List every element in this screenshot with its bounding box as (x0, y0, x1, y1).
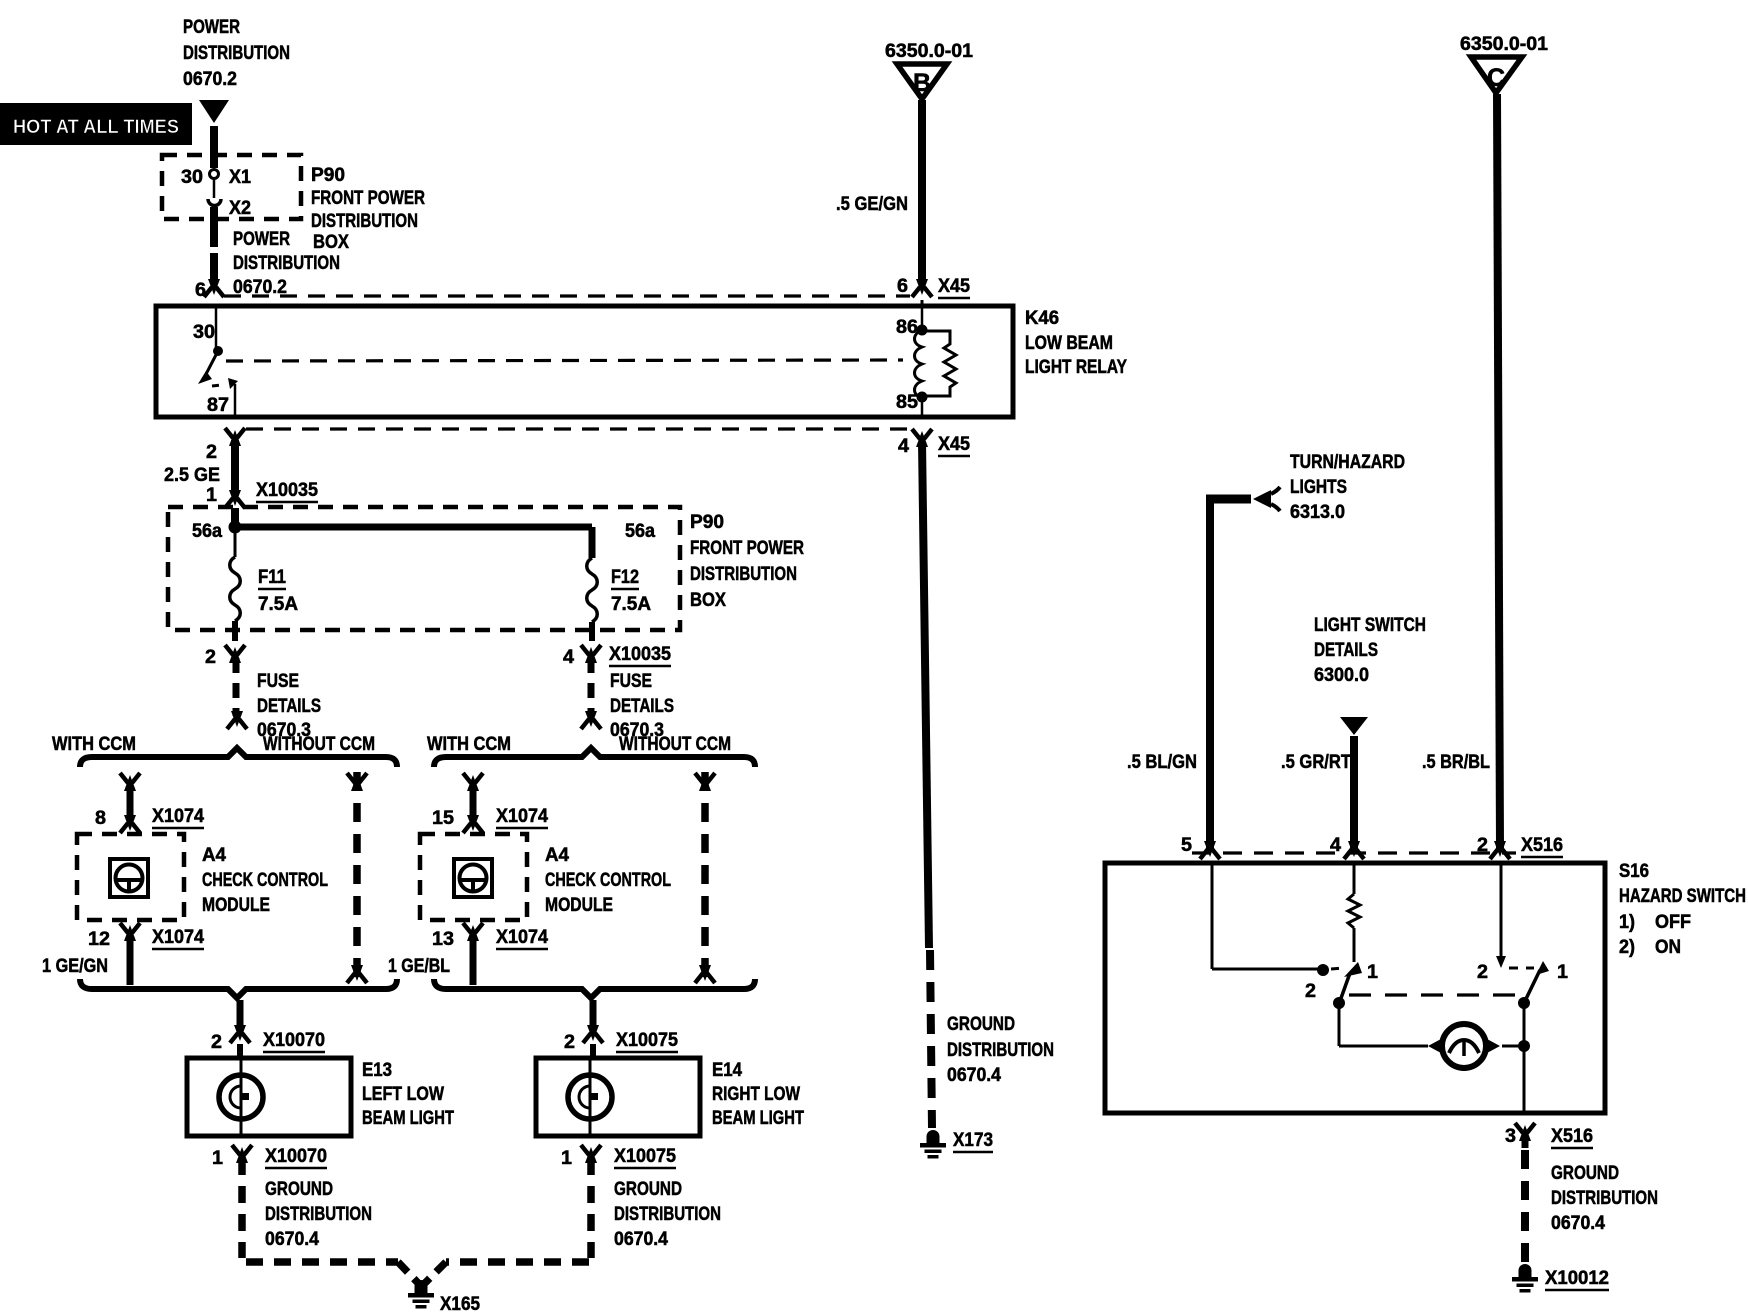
turn/hazard lights reference (1206, 452, 1405, 523)
svg-text:BOX: BOX (690, 590, 726, 611)
svg-text:6300.0: 6300.0 (1314, 665, 1369, 686)
relay pin 30 (193, 308, 216, 348)
svg-text:DISTRIBUTION: DISTRIBUTION (690, 564, 797, 585)
svg-text:0670.4: 0670.4 (947, 1065, 1001, 1086)
wire pin 2 to X10035 (231, 440, 239, 492)
svg-text:0670.4: 0670.4 (1551, 1213, 1605, 1234)
svg-text:DISTRIBUTION: DISTRIBUTION (265, 1204, 372, 1225)
svg-text:FUSE: FUSE (257, 671, 299, 692)
ground distribution label left (265, 1179, 372, 1250)
svg-text:1: 1 (1557, 962, 1568, 983)
svg-text:1): 1) (1619, 912, 1635, 933)
svg-text:1 GE/GN: 1 GE/GN (42, 956, 108, 977)
svg-text:56a: 56a (192, 521, 222, 542)
wire bracket to X10075 (590, 1000, 597, 1028)
box P90 front power distribution box (fuse box) (168, 507, 804, 630)
svg-text:4: 4 (1330, 835, 1341, 856)
connector X45 pin 6 (897, 276, 970, 298)
ground distribution label middle (947, 1014, 1054, 1086)
with/without CCM labels right (427, 734, 731, 755)
wire 1 GE/GN label (42, 956, 108, 977)
HOT AT ALL TIMES banner (0, 103, 192, 145)
svg-text:LIGHTS: LIGHTS (1290, 477, 1347, 498)
svg-text:2: 2 (564, 1032, 575, 1053)
ground distribution label right (614, 1179, 721, 1250)
svg-text:DISTRIBUTION: DISTRIBUTION (311, 211, 418, 232)
wire .5 GE/GN label (836, 194, 908, 215)
svg-text:WITHOUT CCM: WITHOUT CCM (263, 734, 375, 755)
ground X10012 (1512, 1264, 1609, 1293)
svg-text:LOW BEAM: LOW BEAM (1025, 333, 1113, 354)
indicator lamp in hazard switch (1428, 1024, 1500, 1068)
svg-text:0670.4: 0670.4 (614, 1229, 668, 1250)
branch bracket bottom left (80, 979, 397, 998)
dashed line inside relay (226, 360, 903, 361)
relay pin 87 (207, 384, 235, 416)
wire to X173 (dashed) (930, 950, 932, 1128)
svg-text:S16: S16 (1619, 861, 1649, 882)
svg-text:.5 BL/GN: .5 BL/GN (1127, 752, 1197, 773)
power feed from power distribution 0670.2 (183, 17, 290, 123)
connector X2 (208, 198, 251, 219)
connector X10070 pin 1 (212, 1145, 327, 1169)
wire .5 BL/GN label (1127, 752, 1197, 773)
connector X10035 pin 1 (206, 480, 318, 522)
check control module A4 (left) (77, 834, 328, 920)
svg-text:DISTRIBUTION: DISTRIBUTION (233, 253, 340, 274)
dashed connector line at relay bottom (246, 427, 910, 430)
connector X10035 pin 4 (563, 644, 671, 668)
dashed connector line X516 (1192, 851, 1516, 854)
svg-text:X1: X1 (229, 167, 251, 188)
svg-text:15: 15 (432, 808, 454, 829)
wire light switch to X516 pin 4 (1350, 736, 1358, 848)
svg-text:4: 4 (563, 647, 574, 668)
ground wire E13 to X165 (242, 1158, 419, 1284)
connector X1 pin 30 (181, 167, 251, 188)
connector X10075 pin 1 (561, 1145, 676, 1169)
mechanical link between contacts (1349, 993, 1516, 996)
svg-text:DISTRIBUTION: DISTRIBUTION (947, 1040, 1054, 1061)
relay K46 box (156, 306, 1127, 417)
svg-text:X1074: X1074 (152, 806, 204, 827)
svg-text:X45: X45 (938, 276, 970, 297)
ground X173 (920, 1130, 993, 1159)
hazard switch S16 box (1105, 861, 1746, 1113)
connector pin 2 below relay (X45 side left) (206, 428, 245, 463)
hazard switch contact right (positions 1/2) (1477, 961, 1568, 1009)
light switch details reference (1314, 615, 1426, 735)
fuse F12 7.5A (587, 558, 652, 641)
branch wire without-CCM right (695, 772, 715, 985)
svg-text:B: B (913, 69, 931, 97)
resistor in hazard switch (1348, 865, 1360, 962)
svg-text:DETAILS: DETAILS (1314, 640, 1378, 661)
dashed connector line at relay top (224, 294, 910, 297)
connector X10035 pin 2 (205, 645, 245, 668)
box P90 front power distribution box (upper) (162, 155, 425, 253)
ground wire E14 to X165 (424, 1158, 591, 1284)
svg-text:LIGHT SWITCH: LIGHT SWITCH (1314, 615, 1426, 636)
wire right contact through lamp node to pin 3 (1502, 1006, 1530, 1112)
power distribution 0670.2 label (233, 229, 340, 298)
connector X516 pin 5 (1181, 835, 1220, 859)
triangle connector B 6350.0-01 (885, 41, 973, 99)
svg-text:WITH CCM: WITH CCM (52, 734, 136, 755)
ground X165 (408, 1280, 480, 1312)
svg-text:6313.0: 6313.0 (1290, 502, 1345, 523)
svg-text:FRONT POWER: FRONT POWER (690, 538, 804, 559)
svg-text:TURN/HAZARD: TURN/HAZARD (1290, 452, 1405, 473)
svg-text:MODULE: MODULE (202, 895, 270, 916)
wire from power feed to X1 (210, 126, 218, 168)
svg-text:2: 2 (206, 442, 217, 463)
wire bracket to X10070 (237, 1000, 244, 1028)
svg-text:X173: X173 (953, 1130, 993, 1151)
svg-text:56a: 56a (625, 521, 655, 542)
svg-text:BEAM LIGHT: BEAM LIGHT (362, 1108, 454, 1129)
svg-text:X45: X45 (938, 434, 970, 455)
svg-text:6: 6 (897, 276, 908, 297)
svg-text:A4: A4 (202, 845, 226, 866)
svg-text:6: 6 (195, 280, 206, 301)
svg-text:87: 87 (207, 395, 229, 416)
connector X10070 pin 2 (211, 1025, 325, 1057)
svg-text:2: 2 (211, 1032, 222, 1053)
svg-text:X10070: X10070 (265, 1146, 327, 1167)
svg-text:.5 GE/GN: .5 GE/GN (836, 194, 908, 215)
wire B down to X45 pin 6 (918, 100, 926, 282)
svg-text:GROUND: GROUND (947, 1014, 1015, 1035)
svg-text:4: 4 (898, 436, 909, 457)
svg-text:F12: F12 (611, 567, 639, 588)
svg-text:2: 2 (1477, 962, 1488, 983)
svg-text:POWER: POWER (233, 229, 290, 250)
wire .5 BR/BL label (1422, 752, 1490, 773)
svg-text:MODULE: MODULE (545, 895, 613, 916)
svg-text:X1074: X1074 (496, 927, 548, 948)
svg-text:DETAILS: DETAILS (257, 696, 321, 717)
svg-text:12: 12 (88, 929, 110, 950)
svg-text:DISTRIBUTION: DISTRIBUTION (614, 1204, 721, 1225)
svg-text:FUSE: FUSE (610, 671, 652, 692)
connector X516 pin 2 (1477, 835, 1563, 859)
svg-text:HAZARD SWITCH: HAZARD SWITCH (1619, 886, 1746, 907)
with/without CCM labels left (52, 734, 375, 755)
connector X1074 pin 15 (432, 806, 548, 833)
branch bracket top right (434, 748, 755, 767)
svg-text:6350.0-01: 6350.0-01 (1460, 34, 1548, 55)
svg-text:X1074: X1074 (152, 927, 204, 948)
svg-text:X165: X165 (440, 1294, 480, 1312)
svg-text:2.5 GE: 2.5 GE (164, 465, 220, 486)
svg-text:2: 2 (1305, 981, 1316, 1002)
fuse details reference right (581, 658, 674, 741)
svg-text:DETAILS: DETAILS (610, 696, 674, 717)
svg-text:OFF: OFF (1655, 912, 1691, 933)
svg-text:.5 BR/BL: .5 BR/BL (1422, 752, 1490, 773)
svg-text:2): 2) (1619, 937, 1635, 958)
connector pin 6 into relay (195, 279, 224, 301)
svg-text:8: 8 (95, 808, 106, 829)
hazard switch contact left (positions 1/2) (1305, 962, 1378, 1009)
svg-text:WITHOUT CCM: WITHOUT CCM (619, 734, 731, 755)
wire X516-3 to X10012 (dashed) (1521, 1150, 1529, 1262)
svg-text:C: C (1487, 64, 1505, 92)
svg-text:FRONT POWER: FRONT POWER (311, 188, 425, 209)
wire C down to X516 pin 2 (1497, 94, 1500, 848)
svg-text:DISTRIBUTION: DISTRIBUTION (1551, 1188, 1658, 1209)
svg-text:ON: ON (1655, 937, 1681, 958)
svg-text:30: 30 (193, 322, 215, 343)
branch wire without-CCM left (347, 772, 367, 985)
svg-text:BOX: BOX (313, 232, 349, 253)
wire turn/hazard to X516 pin 5 (1206, 499, 1214, 848)
svg-text:LEFT LOW: LEFT LOW (362, 1084, 444, 1105)
svg-text:5: 5 (1181, 835, 1192, 856)
svg-text:X10012: X10012 (1545, 1268, 1609, 1289)
svg-text:1 GE/BL: 1 GE/BL (388, 956, 450, 977)
wire .5 GR/RT label (1281, 752, 1351, 773)
branch bracket top left (80, 748, 397, 767)
svg-text:HOT AT ALL TIMES: HOT AT ALL TIMES (13, 117, 179, 138)
wire pin 2 inside switch (1496, 865, 1506, 968)
svg-text:30: 30 (181, 167, 203, 188)
svg-text:1: 1 (212, 1148, 223, 1169)
wire 2.5 GE label (164, 465, 220, 486)
svg-text:13: 13 (432, 929, 454, 950)
ground distribution label far right (1551, 1163, 1658, 1234)
wire X45-4 down (solid) (922, 442, 929, 948)
svg-text:CHECK CONTROL: CHECK CONTROL (202, 870, 328, 891)
svg-text:3: 3 (1505, 1126, 1516, 1147)
triangle connector C 6350.0-01 (1460, 34, 1548, 93)
svg-text:POWER: POWER (183, 17, 240, 38)
connector X516 pin 3 (1505, 1123, 1593, 1148)
branch bracket bottom right (434, 979, 755, 998)
svg-text:X10075: X10075 (614, 1146, 676, 1167)
branch wire with-CCM top connector (120, 773, 140, 818)
wire pin 5 inside switch (1212, 865, 1329, 976)
relay switch contact 30-87 (198, 346, 238, 389)
connector X1074 pin 12 (88, 923, 204, 985)
branch wire with-CCM right top connector (463, 773, 483, 818)
bulb E13 left low beam light (187, 1058, 454, 1136)
connector X10075 pin 2 (564, 1025, 678, 1057)
svg-text:X10035: X10035 (256, 480, 318, 501)
wire X1 to X2 (213, 179, 216, 198)
svg-text:X10070: X10070 (263, 1030, 325, 1051)
svg-text:P90: P90 (690, 512, 724, 533)
svg-text:2: 2 (1477, 835, 1488, 856)
wire X2 down to relay pin 6 (210, 207, 218, 284)
svg-text:2: 2 (205, 647, 216, 668)
wire left contact to lamp (1339, 1006, 1428, 1046)
svg-text:F11: F11 (258, 567, 286, 588)
svg-text:0670.4: 0670.4 (265, 1229, 319, 1250)
relay coil pins 86-85 (896, 308, 956, 416)
svg-text:GROUND: GROUND (1551, 1163, 1619, 1184)
svg-text:X10075: X10075 (616, 1030, 678, 1051)
svg-text:CHECK CONTROL: CHECK CONTROL (545, 870, 671, 891)
svg-text:7.5A: 7.5A (258, 594, 298, 615)
svg-text:E14: E14 (712, 1060, 742, 1081)
svg-text:X1074: X1074 (496, 806, 548, 827)
svg-text:X2: X2 (229, 198, 251, 219)
svg-text:X10035: X10035 (609, 644, 671, 665)
svg-text:0670.2: 0670.2 (183, 69, 237, 90)
svg-text:1: 1 (561, 1148, 572, 1169)
svg-text:GROUND: GROUND (265, 1179, 333, 1200)
svg-text:X516: X516 (1521, 835, 1563, 856)
connector X1074 pin 13 (432, 923, 548, 985)
check control module A4 (right) (420, 834, 671, 920)
svg-text:BEAM LIGHT: BEAM LIGHT (712, 1108, 804, 1129)
svg-text:6350.0-01: 6350.0-01 (885, 41, 973, 62)
fuse details reference left (227, 658, 321, 741)
connector X45 pin 4 (898, 429, 970, 457)
svg-text:GROUND: GROUND (614, 1179, 682, 1200)
svg-text:RIGHT LOW: RIGHT LOW (712, 1084, 800, 1105)
svg-text:A4: A4 (545, 845, 569, 866)
svg-text:DISTRIBUTION: DISTRIBUTION (183, 43, 290, 64)
svg-text:E13: E13 (362, 1060, 392, 1081)
svg-text:WITH CCM: WITH CCM (427, 734, 511, 755)
svg-text:X516: X516 (1551, 1126, 1593, 1147)
svg-text:1: 1 (1367, 962, 1378, 983)
node 56a (192, 521, 655, 559)
svg-text:.5 GR/RT: .5 GR/RT (1281, 752, 1351, 773)
svg-text:K46: K46 (1025, 308, 1059, 329)
fuse F11 7.5A (230, 530, 299, 641)
svg-text:LIGHT RELAY: LIGHT RELAY (1025, 357, 1127, 378)
connector X516 pin 4 (1330, 835, 1364, 859)
bulb E14 right low beam light (536, 1058, 804, 1136)
connector X1074 pin 8 (95, 806, 204, 833)
svg-text:P90: P90 (311, 165, 345, 186)
svg-text:1: 1 (206, 485, 217, 506)
wire 1 GE/BL label (388, 956, 450, 977)
svg-text:7.5A: 7.5A (611, 594, 651, 615)
wire into relay coil (921, 300, 924, 307)
